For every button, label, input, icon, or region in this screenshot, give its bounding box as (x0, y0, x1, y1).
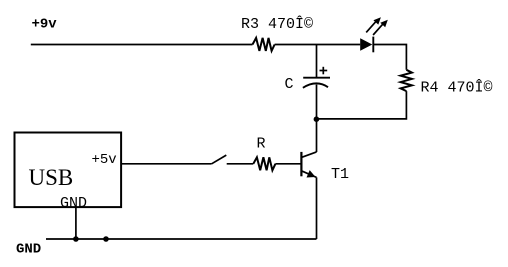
junction dot USB ground (73, 236, 79, 242)
transistor T1 emitter arrowhead (307, 170, 316, 177)
LED light arrow 1 (366, 17, 381, 32)
transistor T1 emitter lead (301, 171, 316, 178)
svg-text:GND: GND (60, 195, 87, 212)
svg-text:R3 470Î©: R3 470Î© (241, 15, 313, 33)
svg-text:+9v: +9v (32, 17, 58, 33)
wire USB GND down to ground rail (75, 208, 77, 240)
USB box (15, 133, 122, 208)
capacitor C plus sign (320, 67, 328, 75)
LED D1 cathode bar (372, 37, 374, 53)
resistor R4 (vertical) (401, 70, 412, 91)
wire ground rail (46, 238, 317, 240)
wire from R to transistor base (275, 163, 301, 165)
svg-text:R4 470Î©: R4 470Î© (421, 79, 493, 97)
svg-text:T1: T1 (331, 166, 349, 183)
LED D1 triangle (360, 38, 372, 50)
wire emitter down to ground rail (316, 177, 318, 239)
resistor R (253, 157, 275, 170)
wire top rail from LED to right corner (373, 45, 406, 70)
LED light arrow 2 (373, 20, 388, 35)
svg-text:GND: GND (16, 242, 41, 258)
transistor T1 base bar (300, 152, 302, 176)
wire from switch to resistor R (227, 163, 254, 165)
wire center branch from top rail down to capacitor (316, 45, 318, 78)
svg-text:R: R (257, 136, 266, 153)
svg-text:USB: USB (29, 165, 74, 190)
switch S1 lever (212, 155, 227, 164)
svg-text:C: C (285, 76, 294, 93)
wire from USB +5v to switch (121, 163, 212, 165)
junction dot ground rail (103, 236, 109, 242)
junction dot collector node (314, 116, 320, 122)
transistor T1 collector lead (301, 152, 316, 158)
wire top rail from +9v to R3 (31, 44, 253, 46)
capacitor C top plate (303, 77, 330, 79)
svg-text:+5v: +5v (92, 152, 117, 168)
wire from capacitor down to collector node (316, 85, 318, 152)
capacitor C curved bottom plate (303, 83, 328, 87)
wire top rail from R3 to LED (275, 44, 361, 46)
wire right branch down from R4 to bottom of branch (316, 91, 406, 119)
resistor R3 (253, 38, 275, 51)
